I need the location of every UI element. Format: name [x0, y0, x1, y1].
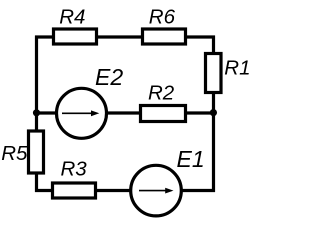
svg-text:E2: E2 [95, 64, 123, 90]
svg-text:R2: R2 [148, 82, 175, 105]
svg-text:R1: R1 [224, 57, 250, 80]
svg-text:R4: R4 [59, 6, 85, 29]
svg-text:R3: R3 [61, 158, 88, 181]
svg-text:R5: R5 [1, 142, 28, 165]
svg-text:R6: R6 [149, 6, 176, 29]
svg-text:E1: E1 [177, 146, 205, 172]
